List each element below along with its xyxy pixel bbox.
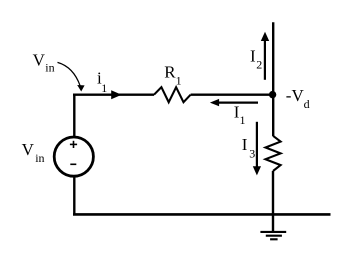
- current arrow I1: [210, 99, 258, 106]
- label I1: [234, 103, 246, 128]
- label Vin (source): [22, 140, 45, 165]
- svg-text:1: 1: [240, 113, 246, 127]
- wire: right branch top: [272, 22, 274, 136]
- svg-text:2: 2: [256, 58, 262, 72]
- wire: right branch bottom to ground: [272, 171, 274, 232]
- svg-text:V: V: [22, 140, 35, 159]
- wire: source top to top-left corner: [73, 95, 75, 137]
- resistor R3 (vertical, right branch): [266, 136, 281, 171]
- wire: bottom rail: [73, 213, 331, 216]
- current arrow I3: [253, 122, 261, 176]
- annotation arrow from V_in label to input node: [58, 62, 85, 91]
- current arrow I2: [261, 32, 269, 80]
- ground: [260, 232, 286, 239]
- svg-text:R: R: [164, 62, 176, 81]
- wire: R1 to node: [191, 93, 273, 95]
- svg-text:d: d: [304, 97, 310, 111]
- voltage source Vin: [54, 137, 93, 176]
- label I2: [250, 47, 262, 72]
- current arrowhead i1 on top wire: [111, 90, 121, 99]
- svg-text:-V: -V: [286, 86, 305, 105]
- wire: top-left corner to R1: [73, 93, 154, 95]
- node (junction dot): [269, 91, 276, 98]
- svg-text:I: I: [250, 47, 256, 66]
- svg-text:in: in: [35, 151, 44, 165]
- current label i1 (blue): [97, 69, 107, 95]
- svg-text:3: 3: [249, 147, 255, 161]
- resistor R1: [154, 87, 191, 102]
- source minus sign: [70, 163, 76, 165]
- label V_in (top annotation): [33, 51, 55, 75]
- svg-text:I: I: [242, 135, 248, 154]
- label I3: [242, 135, 256, 160]
- svg-text:1: 1: [176, 73, 182, 87]
- wire: source bottom to bottom rail: [73, 177, 75, 215]
- source plus sign: [70, 141, 77, 148]
- node label -Vd: [286, 86, 310, 111]
- svg-text:V: V: [33, 51, 46, 70]
- svg-text:1: 1: [101, 81, 107, 95]
- svg-text:in: in: [45, 61, 54, 75]
- label R1: [164, 62, 181, 87]
